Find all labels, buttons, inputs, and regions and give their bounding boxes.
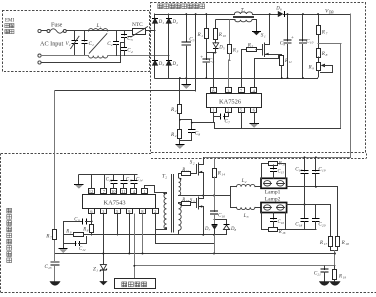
resistor R10 [214,20,227,43]
svg-text:21: 21 [317,273,321,277]
capacitor C15 [270,165,284,178]
ground (bridge) [182,78,192,89]
pin 3 [226,88,232,94]
svg-text:1: 1 [96,269,98,273]
pin 2 [226,108,232,113]
svg-text:R: R [65,230,69,235]
wire pin3 drop [103,214,105,264]
svg-text:18: 18 [345,242,349,246]
dimming module vertical label [7,208,12,262]
capacitor C3 [121,31,133,48]
wire pin7 stub [104,175,106,189]
svg-text:9: 9 [128,209,130,214]
capacitor C12b [63,237,86,252]
wire pin8 drop [142,214,144,255]
capacitor C12 [106,175,118,189]
resistor R7 [317,13,328,48]
capacitor C10 [299,13,314,79]
svg-text:16: 16 [282,231,286,235]
resistor R2 [170,77,182,129]
wire L2/L3 junction [230,187,232,208]
node half-bridge output [202,195,204,197]
capacitor C9 (polarized) [280,13,294,79]
pin 4 [251,88,257,94]
pin 1 [142,189,148,195]
wire VDB rail (half-bridge supply) [203,157,350,159]
diode D1 [152,18,165,26]
wire C18/C20 bottoms [286,229,316,231]
node bridge ground junction [185,77,187,79]
diode D7 [204,220,218,235]
svg-text:NTC: NTC [132,22,143,28]
svg-text:KA7526: KA7526 [219,99,241,106]
ground (T1 aux) [252,20,261,36]
PFC module label [158,4,205,9]
svg-text:12: 12 [82,248,86,252]
wire mid node to inductors [203,195,230,197]
svg-text:3: 3 [237,50,239,54]
svg-text:R: R [278,230,282,235]
MOSFET S1 [261,13,271,56]
wire pin9 drop [128,214,130,255]
capacitor C21 [314,266,330,286]
wire KA7543 top supply [79,174,137,176]
IC KA7543 [83,195,156,209]
capacitor C18 [295,205,308,230]
wire rail down to sense [214,235,216,254]
svg-text:R: R [82,227,86,232]
bridge left leg wire [154,14,156,78]
svg-text:16: 16 [222,215,226,219]
svg-text:1: 1 [92,43,94,47]
svg-text:EMI: EMI [5,19,15,24]
svg-text:4: 4 [131,50,133,54]
svg-text:1: 1 [264,35,266,39]
wire dim reference line [134,265,335,267]
wire R17/R18 bottom node [331,247,338,266]
svg-text:7: 7 [50,236,52,240]
svg-text:14: 14 [222,173,226,177]
svg-text:7: 7 [228,121,230,125]
ground (left node) [59,244,68,253]
svg-text:12: 12 [89,189,93,194]
resistor R13 [181,198,196,206]
svg-text:8: 8 [326,53,328,57]
resistor R19 [330,266,347,286]
diode D4 [166,60,179,68]
svg-text:15: 15 [281,170,285,174]
svg-text:1: 1 [144,189,146,194]
pin 8 [140,209,146,215]
pin 7 [239,88,245,94]
diode D2 [166,18,179,26]
top bus wire [155,14,351,16]
EMI module label [5,19,15,34]
pin 2 [153,209,159,215]
varistor V1 [66,31,80,56]
wire VDB down right side [350,14,352,157]
capacitor C17 [295,156,308,205]
svg-text:1: 1 [212,108,214,113]
resistor R17 [319,237,333,247]
transformer T2 [162,173,174,232]
wire feedback tap R7-R8 [318,44,341,129]
svg-text:2: 2 [175,109,177,113]
capacitor C19 [312,156,326,187]
lamp Lamp2 [261,196,287,212]
pin 6 [89,209,95,215]
diode D5 [213,43,225,53]
wire T2 primary bottom return [156,227,167,230]
capacitor C4 [121,48,133,56]
resistor R9b [65,230,83,237]
bridge right leg wire [168,14,170,78]
svg-text:13: 13 [48,266,52,270]
svg-text:10: 10 [223,34,227,38]
svg-text:3: 3 [102,209,104,214]
wire pin5 drop [117,214,119,235]
transformer T1 [233,8,254,22]
PFC module dashed box [151,3,366,153]
wire current sense line [55,253,335,255]
capacitor C13b (bottom) [45,254,61,286]
MOSFET S2 [190,158,204,196]
pin 12 [89,189,95,195]
capacitor C1 [81,31,94,56]
pin 6 [251,108,257,113]
pin 8 [211,88,217,94]
svg-text:5: 5 [116,209,118,214]
capacitor C16 loop under Lamp2 [270,213,284,228]
resistor R14 [213,157,226,196]
capacitor C14 [131,175,143,189]
capacitor C11 [63,217,92,224]
resistor R8 [317,49,328,63]
box dimming control [115,279,156,289]
zener Z1 [93,265,108,286]
dimming module dashed outline [1,154,376,294]
svg-text:20: 20 [322,224,326,228]
svg-text:+: + [200,56,203,61]
svg-text:10: 10 [310,41,314,45]
pin 5 [115,209,121,215]
wire module ground rail [63,234,226,236]
IC KA7526 [207,94,262,108]
resistor R15 loop over Lamp1 [262,161,286,178]
resistor R12 [181,168,196,175]
pin 3 [101,209,107,215]
capacitor C6 (VCC, polarized) [200,53,214,79]
svg-text:Lamp2: Lamp2 [265,196,281,202]
wire S1 source to R11 [270,55,282,56]
svg-text:3: 3 [131,38,133,42]
wire lamp2 right [287,205,331,237]
EMI module dashed box [3,11,150,72]
resistor R8b [82,214,93,235]
svg-text:9: 9 [312,67,314,71]
svg-text:11: 11 [289,60,292,64]
T2 lower secondary [179,203,182,235]
svg-text:2: 2 [227,108,229,113]
svg-text:6: 6 [90,209,92,214]
resistor R16 [262,213,286,235]
AC input terminals [38,29,64,64]
NTC thermistor [128,22,155,37]
pin 9 [127,209,133,215]
wire lamp1 right [287,187,338,237]
inductor L3 [231,207,262,219]
wire dimming control link [133,214,135,279]
resistor R7b (feed) [45,230,56,254]
wire long feedback (pin1 to divider) [215,123,341,129]
wire bus tap down-left feed [55,13,197,230]
svg-text:4: 4 [175,134,177,138]
resistor R11 [280,56,293,79]
MOSFET S3 [190,196,204,235]
svg-text:19: 19 [322,169,326,173]
svg-text:8: 8 [141,209,143,214]
svg-text:16: 16 [281,221,285,225]
wire left node [63,221,91,243]
pin 1 [211,108,217,113]
svg-text:Fuse: Fuse [51,23,63,29]
wire live line [66,30,132,32]
svg-text:3: 3 [247,215,249,219]
svg-text:1: 1 [69,43,71,47]
pin 5 [239,108,245,113]
wire pin5 drop [241,113,243,129]
inductor L2 [231,178,262,187]
svg-text:7: 7 [103,189,105,194]
pin 11 [121,189,127,195]
capacitor C7 [214,113,231,125]
svg-text:8: 8 [198,133,200,137]
capacitor C13 [121,175,133,189]
svg-text:10: 10 [111,189,115,194]
svg-text:14: 14 [139,179,143,183]
resistor R4 [170,130,182,145]
svg-text:1: 1 [201,34,203,38]
pin 10 [111,189,117,195]
svg-text:Lamp1: Lamp1 [265,190,281,196]
ground (pin6) [249,113,258,128]
svg-text:17: 17 [324,242,328,246]
capacitor C2 [107,31,119,56]
wire neutral line [41,55,169,57]
capacitor C8 [179,119,200,141]
junction dots sense line [102,253,104,255]
diode D6 (boost) [275,7,284,18]
wire pin12 stub [91,175,93,189]
pin 4 [131,189,137,195]
resistor R1 [197,13,209,53]
wire VCC node [206,52,216,54]
svg-text:2: 2 [111,43,113,47]
svg-text:AC Input: AC Input [40,41,63,48]
fuse [41,23,66,34]
wire aux winding left [216,19,233,21]
svg-text:18: 18 [299,224,303,228]
svg-text:7: 7 [326,32,328,36]
wire pin1 network [191,113,214,124]
wire D7-D8 top link [214,219,227,221]
potentiometer R9 [308,63,333,79]
diode D3 [152,60,165,68]
resistor R3 [228,20,239,88]
svg-text:2: 2 [165,176,167,180]
diode D8 [223,220,236,235]
svg-text:KA7543: KA7543 [104,200,126,207]
capacitor C20 [312,205,326,230]
svg-text:11: 11 [121,189,125,194]
capacitor C5 (bus) [182,13,195,78]
svg-text:5: 5 [193,39,195,43]
resistor R5 (gate) [241,42,262,88]
ground (KA7543 left) [74,175,83,188]
ground (divider) [175,145,184,149]
capacitor C22 (mid) [210,196,225,220]
svg-text:DB: DB [328,11,335,15]
svg-text:2: 2 [245,180,247,184]
lamp Lamp1 [261,178,287,195]
wire pin4 current sense [255,55,279,88]
ground rail wire [155,78,318,80]
pin 7 [101,189,107,195]
wire pin8 VCC [213,53,215,88]
label VDB [325,9,334,15]
common-mode choke L1 [89,23,108,58]
svg-text:19: 19 [343,276,347,280]
wire pin2 drop [156,214,215,244]
T2 upper secondary [179,174,204,196]
resistor R18 [336,237,350,247]
wire pin1 to T2 primary [145,186,166,195]
wire earth line [41,43,124,63]
